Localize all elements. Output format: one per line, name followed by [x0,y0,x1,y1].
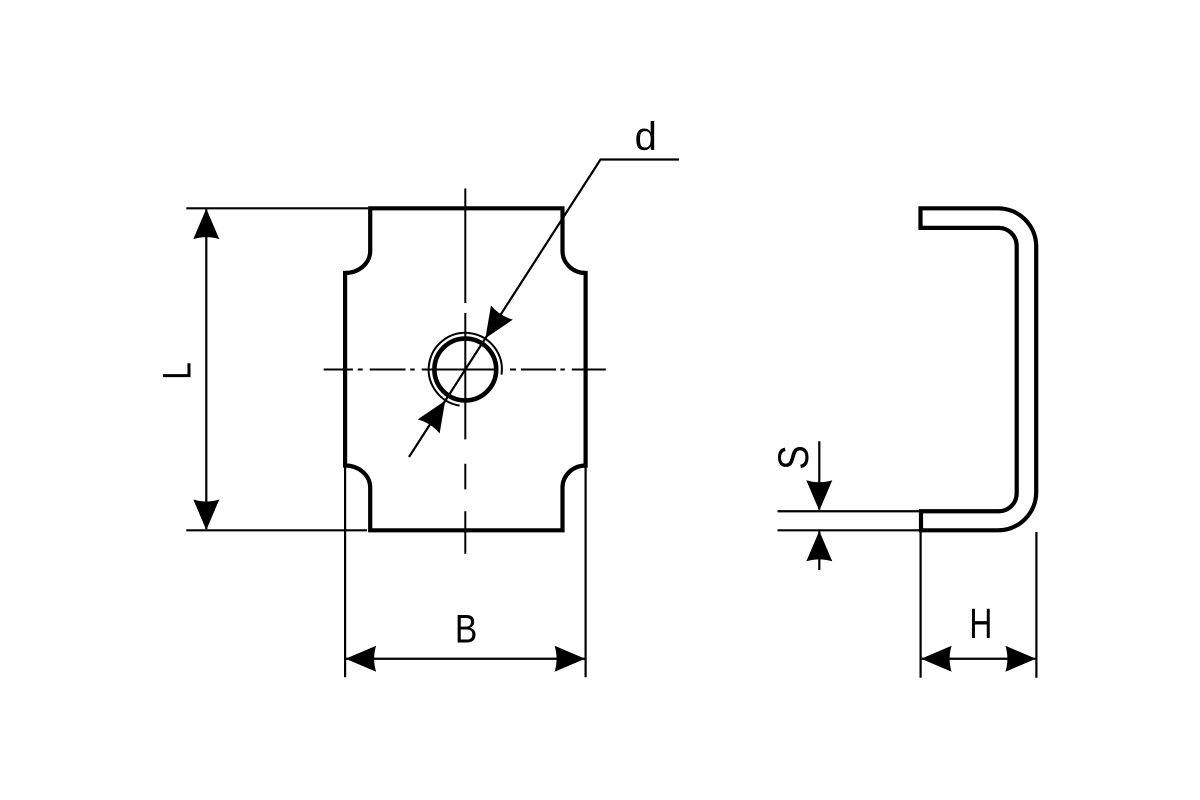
svg-text:d: d [635,115,657,159]
svg-text:H: H [969,600,992,648]
svg-text:L: L [155,362,200,379]
svg-text:S: S [770,445,817,469]
svg-text:B: B [455,607,477,651]
